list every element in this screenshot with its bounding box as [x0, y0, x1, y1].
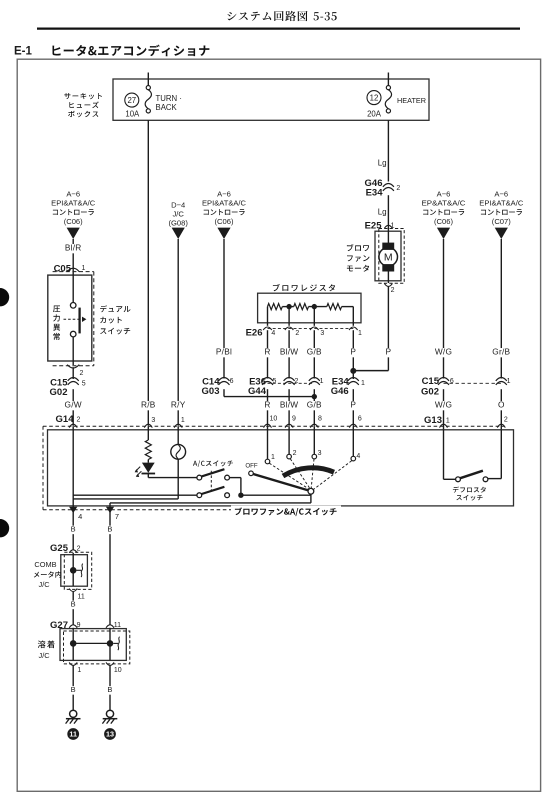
wire LED to switch	[148, 474, 197, 478]
svg-text:5: 5	[82, 381, 86, 388]
svg-text:E34: E34	[366, 188, 384, 199]
rotary dashed ray 4	[313, 461, 351, 490]
section heading E-1	[14, 45, 209, 58]
C05 actuate arrow	[64, 317, 87, 322]
wire Bl/W lower	[288, 389, 290, 426]
wire label B 4	[70, 685, 77, 695]
svg-text:D−4: D−4	[171, 201, 185, 210]
G14 pin 8 entry	[310, 416, 322, 428]
svg-text:G/B: G/B	[307, 347, 322, 357]
junction dot A/C out	[238, 493, 243, 498]
svg-text:2: 2	[396, 185, 400, 192]
svg-text:BACK: BACK	[156, 103, 178, 112]
blower motor solid box	[375, 231, 401, 281]
wire label Bl/W	[277, 347, 301, 358]
page title	[228, 11, 337, 21]
wire D-4 down R/Y	[177, 239, 179, 426]
svg-text:E-1: E-1	[14, 46, 33, 58]
G14 pin 2 entry	[69, 416, 80, 427]
connector head A-6 EPI&AT&A/C (C06) left	[51, 190, 95, 227]
svg-text:B: B	[107, 525, 112, 534]
wire label Lg upper	[378, 159, 387, 168]
resistor chain link 1	[282, 306, 293, 308]
wire G/B column	[313, 330, 315, 378]
C05 wire in box top	[72, 271, 74, 303]
connector C15/G02 right	[421, 376, 511, 397]
fuse 12 rating 20A	[367, 110, 382, 119]
G25 pin 2	[69, 546, 80, 553]
svg-text:R/B: R/B	[141, 400, 156, 410]
fuse 12 name	[397, 96, 426, 105]
rotary contact stub 2	[288, 426, 290, 454]
A/C switch S1	[197, 469, 230, 480]
wire label Gr/B	[490, 347, 514, 358]
G27 junction dots and bar	[70, 640, 113, 647]
junction dot resistor tap 3	[312, 304, 317, 309]
A/C switch link	[210, 471, 212, 493]
svg-text:TURN ·: TURN ·	[156, 94, 182, 103]
binder hole upper	[0, 288, 9, 306]
wire W/G lower	[443, 389, 445, 430]
wire A-6 mid down	[223, 239, 225, 379]
svg-text:11: 11	[78, 594, 85, 601]
G27 label solder J/C	[38, 641, 55, 660]
svg-text:1: 1	[181, 417, 185, 424]
C05 pin 2	[67, 365, 83, 377]
G25 label COMB meter J/C	[34, 560, 61, 589]
wire P left upper	[352, 330, 354, 369]
svg-text:1: 1	[446, 418, 450, 425]
wire motor elbow	[353, 370, 388, 372]
svg-text:10: 10	[114, 667, 122, 674]
svg-text:4: 4	[271, 330, 275, 337]
svg-text:2: 2	[77, 416, 81, 423]
wire label Lg lower	[378, 208, 387, 217]
fuse 27 TURN-BACK	[145, 86, 151, 114]
G27 solid box	[60, 629, 126, 661]
svg-text:EP&AT&A/C: EP&AT&A/C	[422, 199, 466, 208]
svg-text:G02: G02	[50, 387, 68, 398]
svg-text:(G08): (G08)	[168, 219, 188, 228]
blower resistor box	[258, 293, 361, 323]
G25 pin 11	[69, 589, 85, 601]
blower motor M1	[379, 229, 398, 284]
G25 label	[50, 543, 69, 554]
rotary dashed ray 3	[311, 459, 314, 488]
svg-text:G02: G02	[421, 386, 439, 397]
svg-text:EPI&AT&A/C: EPI&AT&A/C	[202, 199, 246, 208]
svg-text:E26: E26	[246, 328, 263, 339]
svg-text:(C06): (C06)	[434, 217, 453, 226]
connector arrow right1	[437, 228, 450, 239]
G27 dashed box	[64, 631, 130, 664]
connector head A-6 EPI&AT&A/C (C07)	[479, 190, 523, 227]
svg-text:1: 1	[358, 330, 362, 337]
wire label B 5	[107, 685, 114, 695]
connector arrow left	[67, 228, 80, 239]
blower motor label	[347, 244, 370, 272]
wire Lg lower	[387, 195, 389, 228]
svg-text:COMB: COMB	[34, 560, 56, 569]
svg-text:P: P	[350, 400, 356, 410]
svg-text:R: R	[264, 347, 270, 357]
resistor R2 (blower resistor segment 2)	[294, 304, 309, 310]
connector head A-6 EP&AT&A/C (C06) right	[422, 190, 466, 227]
wire O lower	[500, 389, 502, 430]
svg-text:R/Y: R/Y	[171, 400, 186, 410]
G13 pin 2 entry	[497, 417, 508, 428]
fuse box label	[64, 93, 102, 117]
svg-text:1: 1	[77, 667, 81, 674]
svg-text:3: 3	[318, 450, 322, 457]
fuse 27 number	[125, 93, 139, 107]
svg-text:6: 6	[230, 378, 234, 385]
wire C15 to G14	[72, 389, 74, 426]
svg-text:HEATER: HEATER	[397, 96, 426, 105]
header rule	[37, 28, 520, 30]
wire fuse27 down R/B	[147, 120, 149, 426]
svg-text:6: 6	[358, 416, 362, 423]
junction dot resistor tap 2	[286, 304, 291, 309]
svg-text:B: B	[107, 685, 112, 694]
svg-text:Lg: Lg	[378, 208, 387, 217]
wire label B 1	[70, 525, 77, 535]
wire label B 3	[70, 600, 77, 610]
svg-text:1: 1	[320, 378, 324, 385]
rotary wiper pivot	[308, 488, 314, 494]
wire common to rotary	[241, 494, 311, 496]
wire label R lower	[264, 400, 271, 411]
wire C05 to C15	[72, 367, 74, 379]
pin 4 exit	[69, 507, 82, 521]
resistor chain link 2	[309, 306, 327, 308]
connector arrow mid	[217, 228, 230, 239]
wire R column	[267, 330, 269, 378]
wire A-6 to C05	[72, 239, 74, 271]
A/C switch label	[193, 460, 233, 467]
svg-text:G46: G46	[331, 386, 349, 397]
svg-text:11: 11	[69, 730, 77, 739]
illumination lamp L1	[171, 444, 186, 459]
wire R/Y into box	[177, 426, 179, 444]
G25 junction dot	[70, 567, 77, 574]
fuse 27 name	[156, 94, 182, 112]
G25 dashed box	[64, 552, 91, 589]
svg-text:5: 5	[272, 378, 276, 385]
blower motor pin 1	[384, 223, 394, 230]
svg-text:3: 3	[320, 330, 324, 337]
svg-text:G27: G27	[50, 620, 68, 631]
wire label R	[264, 347, 271, 358]
wire Gr/B upper	[500, 239, 502, 379]
resistor R3 (blower resistor segment 3)	[327, 304, 342, 310]
connector G46/E34	[365, 178, 401, 199]
G13 label	[424, 415, 442, 426]
blower motor dashed box	[379, 229, 404, 284]
G27 label	[50, 620, 68, 631]
svg-text:G13: G13	[424, 415, 442, 426]
wire pin7 down	[109, 512, 111, 625]
rotary wiper to OFF	[253, 474, 308, 490]
svg-text:3: 3	[151, 417, 155, 424]
svg-text:1: 1	[507, 378, 511, 385]
defroster switch SW	[456, 471, 488, 482]
wire stub above fuse 12	[387, 73, 389, 86]
svg-text:W/G: W/G	[435, 400, 452, 410]
svg-text:10A: 10A	[125, 110, 140, 119]
connector row E26	[246, 327, 362, 339]
fuse 12 number	[367, 91, 381, 105]
wire E26 pin4 drop	[267, 307, 269, 326]
ground symbol right	[102, 710, 117, 723]
connector head A-6 EPI&AT&A/C (C06) mid	[202, 190, 246, 227]
connector C14/G03	[202, 376, 234, 397]
rotary contact 4	[351, 453, 360, 461]
switch assembly dashed box G14	[43, 426, 504, 510]
wire fuse12 down Lg	[387, 120, 389, 181]
connector head D-4 J/C (G08)	[168, 201, 188, 228]
G13 pin 1 entry	[440, 418, 450, 428]
wire G25 to G27	[72, 592, 74, 625]
G25 solid box	[61, 555, 88, 587]
svg-text:J/C: J/C	[39, 651, 51, 660]
svg-text:Bl/R: Bl/R	[65, 243, 82, 253]
svg-text:1: 1	[361, 380, 365, 387]
C05 dashed box	[53, 272, 94, 366]
svg-text:EPI&AT&A/C: EPI&AT&A/C	[51, 199, 95, 208]
binder hole lower	[0, 519, 9, 537]
svg-text:2: 2	[80, 370, 84, 377]
wire P junction down	[352, 370, 354, 380]
svg-text:Gr/B: Gr/B	[492, 347, 510, 357]
svg-text:(C06): (C06)	[215, 217, 234, 226]
svg-text:C05: C05	[54, 263, 72, 274]
svg-text:B: B	[71, 525, 76, 534]
resistor chain to pin1	[342, 307, 354, 326]
G14 label	[56, 414, 75, 425]
svg-text:Lg: Lg	[378, 159, 387, 168]
svg-text:1: 1	[271, 454, 275, 461]
wire label G/B	[305, 347, 323, 358]
ground point 11	[67, 728, 79, 740]
svg-text:EPI&AT&A/C: EPI&AT&A/C	[479, 199, 523, 208]
svg-text:2: 2	[294, 378, 298, 385]
svg-text:P: P	[350, 347, 356, 357]
wire lamp down	[177, 459, 179, 499]
svg-text:B: B	[71, 685, 76, 694]
rotary wiper arc	[283, 468, 334, 476]
switch assembly solid box	[48, 430, 514, 506]
wire G27 to ground left	[72, 666, 74, 710]
wire E26 pin3 drop	[313, 307, 315, 326]
svg-text:M: M	[384, 252, 393, 264]
wire W/G upper	[443, 239, 445, 379]
C05 solid box	[48, 275, 92, 361]
svg-text:8: 8	[318, 416, 322, 423]
wire C14 elbow to G/B	[224, 389, 314, 396]
A/C switch S2	[197, 487, 230, 498]
ground point 13	[104, 728, 116, 740]
wire label Bl/W lower	[277, 400, 301, 411]
wire label G/B lower	[305, 400, 323, 411]
wire label P left	[350, 347, 357, 358]
wire label G/W	[64, 400, 82, 411]
G27 J/C hook	[113, 637, 119, 650]
wire lamp return to pin 4	[73, 495, 178, 513]
defroster switch label	[453, 487, 486, 501]
svg-text:E25: E25	[365, 220, 383, 231]
svg-text:7: 7	[115, 512, 119, 521]
connector E34/G46	[331, 376, 365, 397]
wire pin4 down	[72, 512, 74, 550]
G27 pin 11	[106, 622, 121, 629]
svg-text:2: 2	[295, 330, 299, 337]
rotary contact stub 1	[267, 426, 269, 459]
svg-text:20A: 20A	[367, 110, 382, 119]
wire label W/G lower	[434, 400, 452, 411]
svg-text:O: O	[498, 400, 505, 410]
rotary dashed ray 1	[269, 463, 308, 489]
svg-text:A−6: A−6	[437, 190, 451, 199]
wire label O	[498, 400, 505, 411]
svg-text:G/B: G/B	[307, 400, 322, 410]
G27 pin 1	[69, 662, 81, 674]
G14 pin 1 entry	[174, 417, 185, 428]
rotary dashed ray 2	[290, 459, 310, 489]
blower resistor label	[273, 284, 335, 291]
connector E36/G44	[248, 376, 324, 397]
svg-text:A−6: A−6	[494, 190, 508, 199]
junction dot on G/B	[312, 394, 317, 399]
rotary contact 3	[312, 450, 322, 459]
wire Bl/W column	[288, 330, 290, 378]
svg-text:2: 2	[77, 546, 81, 553]
svg-text:9: 9	[292, 416, 296, 423]
svg-text:2: 2	[293, 450, 297, 457]
svg-text:2: 2	[504, 417, 508, 424]
fuse 12 HEATER	[385, 86, 391, 114]
junction dot P	[350, 368, 356, 374]
C05 contact circles	[70, 303, 76, 337]
rotary contact 1	[265, 454, 275, 464]
svg-text:6: 6	[450, 378, 454, 385]
svg-text:R: R	[264, 400, 270, 410]
G27 wires through	[73, 628, 110, 660]
wire label P/Bl	[212, 347, 236, 358]
wire label Bl/R	[61, 243, 85, 254]
resistor R1 (blower resistor segment 1)	[268, 304, 283, 310]
wire motor down P	[387, 287, 389, 371]
rotary contact 2	[287, 450, 297, 459]
svg-text:J/C: J/C	[39, 580, 51, 589]
C05 contact bar	[78, 308, 80, 334]
svg-text:A−6: A−6	[66, 190, 80, 199]
connector arrow right2	[495, 228, 508, 239]
wire G27 to ground right	[109, 666, 111, 710]
svg-text:A−6: A−6	[217, 190, 231, 199]
svg-text:4: 4	[78, 512, 82, 521]
G14 pin 10 entry	[264, 416, 278, 428]
svg-text:P/Bl: P/Bl	[216, 347, 232, 357]
C05 wire in box bottom	[72, 337, 74, 365]
svg-text:G44: G44	[248, 386, 267, 397]
wire pivot to pin 7	[110, 494, 311, 512]
svg-text:12: 12	[370, 94, 379, 103]
wire G/W into box	[73, 426, 197, 495]
G14 pin 3 entry	[144, 417, 155, 428]
svg-text:10: 10	[270, 416, 278, 423]
fuse 27 rating 10A	[125, 110, 140, 119]
connector C15/G02 left	[50, 377, 86, 398]
wire G/B lower	[313, 389, 315, 426]
wire stub above fuse 27	[147, 73, 149, 86]
svg-text:P: P	[386, 347, 392, 357]
wire E26 pin2 drop	[288, 307, 290, 326]
wire label R/B	[139, 400, 157, 411]
wire R lower	[267, 389, 269, 426]
G14 pin 9 entry	[285, 416, 296, 428]
pin 7 exit	[106, 507, 119, 521]
rotary contact stub 4	[352, 426, 354, 456]
svg-text:W/G: W/G	[435, 347, 452, 357]
wire S1 out	[230, 478, 241, 496]
LED D1 (A/C indicator)	[135, 460, 156, 478]
svg-text:B: B	[71, 600, 76, 609]
C05 pin 1	[67, 265, 85, 272]
svg-text:Bl/W: Bl/W	[280, 400, 299, 410]
wire label P motor	[385, 347, 392, 358]
wire P to switch	[352, 389, 354, 426]
fuse box (circuit fuse box)	[113, 79, 429, 120]
dual cut switch label	[100, 305, 130, 334]
connector arrow D-4	[172, 228, 185, 239]
blower fan & A/C switch label	[231, 506, 341, 518]
svg-text:G03: G03	[202, 386, 220, 397]
svg-text:13: 13	[106, 730, 114, 739]
ground symbol left	[66, 710, 81, 723]
svg-text:Bl/W: Bl/W	[280, 347, 299, 357]
wire label B 2	[107, 525, 114, 535]
blower motor E25 label	[365, 220, 383, 231]
svg-text:J/C: J/C	[173, 210, 185, 219]
rotary contact stub 3	[313, 426, 315, 454]
G27 pin 10	[106, 662, 122, 674]
wire label P lower	[350, 400, 357, 411]
wire label W/G upper	[434, 347, 452, 358]
G14 pin 6 entry	[349, 416, 362, 428]
C05 label pressure-abnormal	[53, 306, 60, 341]
blower motor pin 2	[384, 283, 394, 294]
svg-text:OFF: OFF	[245, 462, 258, 469]
G27 pin 9	[69, 622, 80, 629]
wire G13-1 into box	[444, 430, 456, 480]
G25 J/C hook	[77, 564, 83, 577]
svg-text:27: 27	[127, 96, 136, 105]
svg-text:4: 4	[356, 453, 360, 460]
svg-text:(C06): (C06)	[64, 217, 83, 226]
wire label R/Y	[169, 400, 187, 411]
wire R/B into box	[147, 426, 149, 440]
svg-text:2: 2	[391, 287, 395, 294]
rotary OFF contact	[245, 462, 258, 475]
wire G13-2 into box	[488, 430, 501, 479]
C05 label	[54, 263, 72, 274]
svg-text:G/W: G/W	[65, 400, 82, 410]
resistor for LED	[145, 440, 151, 460]
svg-text:G14: G14	[56, 414, 75, 425]
G25 wire through	[72, 553, 74, 586]
svg-text:(C07): (C07)	[492, 217, 511, 226]
